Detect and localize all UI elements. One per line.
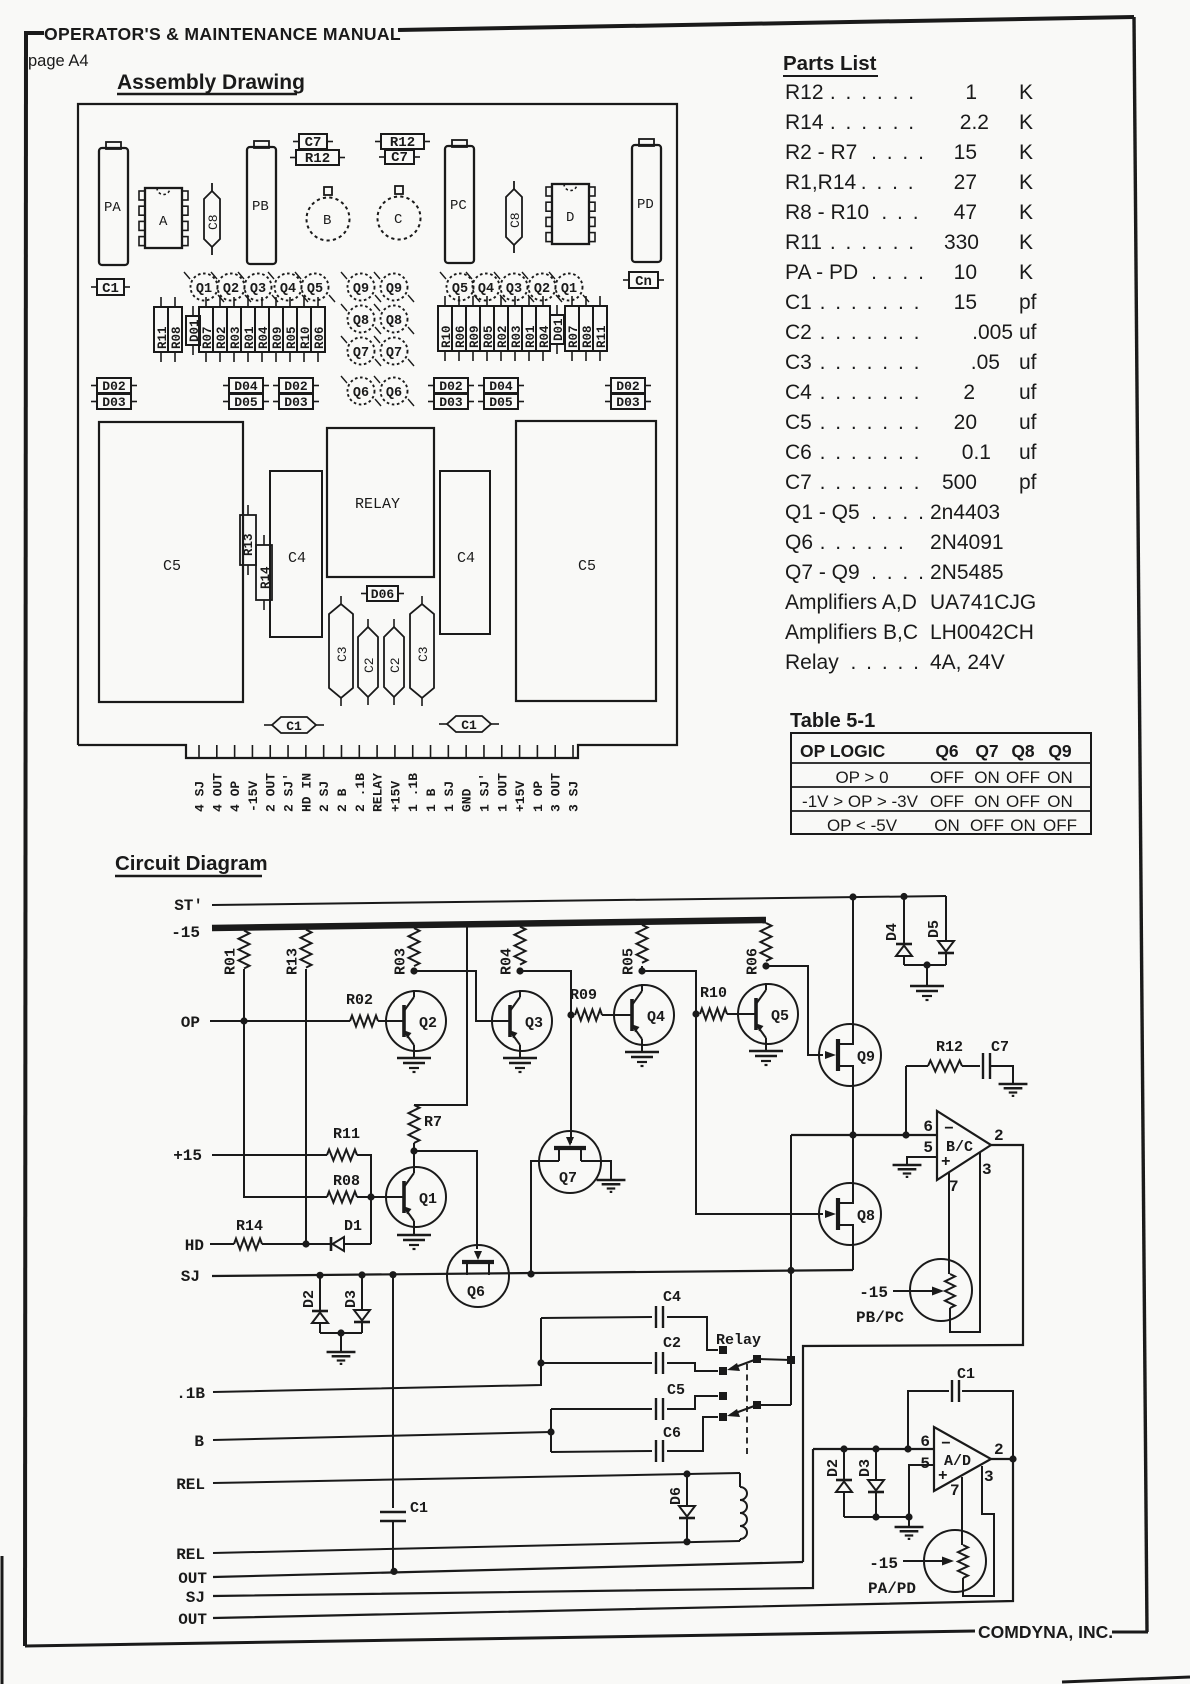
wire Q4 collector to R10 (elbow) bbox=[642, 971, 696, 1014]
svg-text:. . . .: . . . . bbox=[871, 261, 926, 284]
svg-text:uf: uf bbox=[1019, 411, 1037, 434]
svg-text:Q9: Q9 bbox=[1048, 741, 1072, 761]
diode D1 bbox=[330, 1237, 333, 1251]
transistor Q5 pad (left group) bbox=[302, 274, 329, 301]
resistor R06 (left group) bbox=[317, 297, 319, 307]
transistor Q7 pad (middle) bbox=[381, 338, 408, 365]
resistor R13 bbox=[301, 930, 312, 968]
wire summing line into A/D bbox=[813, 1448, 934, 1450]
resistor R04 (right group) bbox=[542, 296, 544, 306]
wire ST' corner to D5 bbox=[945, 896, 947, 941]
svg-text:Q1: Q1 bbox=[561, 282, 577, 297]
svg-text:HD: HD bbox=[185, 1237, 204, 1255]
svg-text:PA - PD: PA - PD bbox=[785, 261, 858, 284]
capacitor C5 (left) bbox=[99, 422, 243, 702]
svg-text:C2: C2 bbox=[663, 1335, 681, 1352]
svg-text:47: 47 bbox=[954, 201, 977, 224]
table box bbox=[791, 733, 1091, 834]
svg-text:C1: C1 bbox=[102, 281, 119, 297]
wire Q1 collector bbox=[413, 1151, 415, 1168]
svg-text:R2 - R7: R2 - R7 bbox=[785, 141, 857, 164]
svg-text:R02: R02 bbox=[346, 992, 373, 1009]
svg-text:REL: REL bbox=[176, 1476, 205, 1494]
junction pin5 ground node bbox=[905, 1513, 912, 1520]
junction Q1 base bbox=[367, 1193, 374, 1200]
svg-text:2 SJ': 2 SJ' bbox=[282, 773, 297, 812]
edge connector pin 1 OUT bbox=[501, 745, 503, 758]
svg-text:C5: C5 bbox=[667, 1382, 685, 1399]
svg-text:Q2: Q2 bbox=[223, 282, 239, 297]
svg-text:3 OUT: 3 OUT bbox=[549, 773, 564, 812]
wire PB/PC bottom to pin3 bbox=[950, 1152, 980, 1332]
wire R06 to Q5 collector node bbox=[765, 964, 767, 966]
ground after C7 bbox=[999, 1083, 1028, 1086]
resistor R01 (right group) bbox=[528, 296, 530, 306]
svg-text:pf: pf bbox=[1019, 291, 1037, 314]
svg-text:page A4: page A4 bbox=[28, 52, 89, 70]
svg-text:C8: C8 bbox=[508, 212, 523, 228]
wire SJ line (bottom) bbox=[213, 1449, 813, 1596]
svg-text:Q1 - Q5: Q1 - Q5 bbox=[785, 501, 860, 524]
svg-text:C2: C2 bbox=[362, 657, 377, 673]
svg-text:D3: D3 bbox=[857, 1459, 874, 1477]
svg-text:OFF: OFF bbox=[970, 816, 1004, 835]
svg-text:Amplifiers B,C: Amplifiers B,C bbox=[785, 621, 918, 644]
edge connector pin +15V bbox=[519, 745, 521, 758]
junction D2/D3 ground bbox=[337, 1329, 344, 1336]
svg-text:C1: C1 bbox=[461, 718, 477, 733]
resistor R05 (right group) bbox=[486, 296, 488, 306]
svg-text:C5: C5 bbox=[163, 558, 181, 575]
svg-text:B: B bbox=[194, 1433, 204, 1451]
edge connector pin 1 SJ' bbox=[483, 745, 485, 758]
edge connector pin +15V bbox=[394, 745, 396, 758]
svg-text:Q8: Q8 bbox=[353, 314, 369, 329]
resistor R09 (left group) bbox=[275, 297, 277, 307]
svg-text:2: 2 bbox=[994, 1441, 1004, 1459]
svg-text:C: C bbox=[394, 212, 402, 228]
svg-text:UA741CJG: UA741CJG bbox=[930, 591, 1036, 614]
svg-text:. . . . .: . . . . . bbox=[851, 651, 922, 674]
svg-text:A/D: A/D bbox=[944, 1453, 971, 1470]
capacitor C2 (right) bbox=[393, 619, 395, 627]
svg-text:Assembly Drawing: Assembly Drawing bbox=[117, 71, 305, 94]
resistor R10 bbox=[700, 1009, 727, 1020]
ground below Q5 bbox=[765, 1045, 767, 1050]
resistor R08 (left group) bbox=[174, 297, 176, 307]
wire B/C output pin2 bbox=[803, 1145, 1023, 1562]
capacitor C1 (A/D feedback) bbox=[908, 1391, 949, 1449]
junction D4/D5 ground node bbox=[923, 961, 930, 968]
svg-text:Q6: Q6 bbox=[935, 741, 959, 761]
svg-text:D05: D05 bbox=[489, 395, 513, 410]
svg-text:C6: C6 bbox=[785, 441, 812, 464]
transistor Q7 bbox=[539, 1131, 601, 1193]
svg-text:−: − bbox=[941, 1435, 951, 1453]
ground below Q3 bbox=[519, 1052, 521, 1057]
relay contact C4 bbox=[719, 1346, 727, 1354]
capacitor C5 (right) bbox=[516, 421, 656, 701]
diode D3 (SJ clamp) bbox=[361, 1275, 363, 1310]
svg-text:SJ: SJ bbox=[181, 1268, 200, 1286]
transistor Q9 pad (middle) bbox=[381, 274, 408, 301]
diodes D02/D03 boxes (mid-left) bbox=[273, 385, 279, 387]
svg-text:D03: D03 bbox=[616, 395, 640, 410]
svg-text:PA/PD: PA/PD bbox=[868, 1580, 916, 1598]
table rule 2 bbox=[791, 786, 1091, 788]
wiper arrow PB/PC bbox=[893, 1290, 934, 1292]
svg-text:2N5485: 2N5485 bbox=[930, 561, 1004, 584]
svg-text:Q8: Q8 bbox=[1011, 741, 1035, 761]
svg-text:COMDYNA, INC.: COMDYNA, INC. bbox=[978, 1622, 1113, 1642]
junction Q3 collector bbox=[516, 967, 523, 974]
svg-text:Q5: Q5 bbox=[771, 1008, 789, 1025]
svg-text:C1: C1 bbox=[410, 1500, 428, 1517]
capacitor C4 (left) bbox=[270, 471, 322, 637]
junction OP/R01 bbox=[240, 1017, 247, 1024]
resistor R01 (left group) bbox=[247, 297, 249, 307]
svg-text:OPERATOR'S & MAINTENANCE MA: OPERATOR'S & MAINTENANCE MANUAL bbox=[44, 24, 401, 44]
wire REL line (top) bbox=[213, 1473, 740, 1483]
svg-text:SJ: SJ bbox=[186, 1589, 205, 1607]
transistor Q5 pad (right group) bbox=[447, 274, 474, 301]
capacitor C2 (relay bank) bbox=[541, 1362, 652, 1364]
svg-text:R11: R11 bbox=[595, 325, 609, 348]
label box C7 (right pair) bbox=[379, 156, 385, 158]
svg-text:2 OUT: 2 OUT bbox=[264, 773, 279, 812]
svg-text:D4: D4 bbox=[884, 923, 901, 941]
svg-text:-15V: -15V bbox=[246, 781, 261, 812]
wire arm1 to riser bbox=[757, 1359, 791, 1360]
ground below D4/D5 bbox=[926, 965, 928, 985]
wire Q7 drain to ground bbox=[581, 1161, 611, 1179]
svg-text:RELAY: RELAY bbox=[355, 496, 400, 513]
svg-text:PA: PA bbox=[104, 200, 121, 216]
svg-text:Q9: Q9 bbox=[857, 1049, 875, 1066]
svg-text:C3: C3 bbox=[785, 351, 812, 374]
resistor R02 bbox=[350, 1016, 378, 1027]
junction ST'/D4 bbox=[900, 893, 907, 900]
svg-text:1 SJ': 1 SJ' bbox=[477, 773, 492, 812]
wire OUT line (1) bbox=[213, 1562, 803, 1577]
ground below Q2 bbox=[413, 1052, 415, 1057]
wire R05 to Q4 collector node bbox=[641, 966, 643, 971]
junction REL/D6 bbox=[683, 1470, 690, 1477]
svg-text:R7: R7 bbox=[424, 1114, 442, 1131]
svg-text:1: 1 bbox=[965, 81, 977, 104]
svg-text:-1V > OP > -3V: -1V > OP > -3V bbox=[802, 792, 919, 811]
wire -15 bus (thick) bbox=[212, 920, 766, 928]
svg-text:C1: C1 bbox=[286, 719, 302, 734]
svg-text:Q5: Q5 bbox=[452, 282, 468, 297]
capacitor C4 (relay bank) bbox=[541, 1317, 652, 1318]
edge connector pin 2 SJ bbox=[323, 745, 325, 758]
diodes D04/D05 boxes (left) bbox=[223, 385, 229, 387]
svg-text:-15: -15 bbox=[171, 924, 200, 942]
svg-text:R11: R11 bbox=[333, 1126, 360, 1143]
resistor R7 bbox=[409, 1105, 420, 1143]
wire relay common riser bbox=[790, 1270, 792, 1405]
relay contact C5 bbox=[719, 1392, 727, 1400]
svg-text:R12: R12 bbox=[305, 151, 330, 167]
relay arm 2 bbox=[753, 1401, 761, 1409]
resistor R13 (assembly) bbox=[247, 505, 249, 515]
svg-text:K: K bbox=[1019, 171, 1033, 194]
svg-text:1 SJ: 1 SJ bbox=[442, 781, 457, 812]
wire OP down to R08 row bbox=[244, 1021, 327, 1197]
svg-text:. . . .: . . . . bbox=[871, 501, 926, 524]
junction OUT/C1 bbox=[390, 1568, 397, 1575]
svg-text:20: 20 bbox=[954, 411, 977, 434]
svg-text:Q7: Q7 bbox=[353, 346, 369, 361]
svg-text:R04: R04 bbox=[499, 948, 516, 975]
resistor R11 (right group) bbox=[599, 296, 601, 306]
svg-text:ON: ON bbox=[1047, 792, 1073, 811]
capacitor C2 (left) bbox=[367, 619, 369, 627]
wire Q8 gate from R10 junction bbox=[696, 1014, 823, 1214]
svg-text:. . . .: . . . . bbox=[871, 141, 926, 164]
svg-text:C6: C6 bbox=[663, 1425, 681, 1442]
junction SJ/pin6 riser bbox=[787, 1267, 794, 1274]
svg-text:OP > 0: OP > 0 bbox=[835, 768, 888, 787]
resistor R05 bbox=[637, 925, 648, 963]
wire .1B line bbox=[213, 1318, 541, 1392]
transistor Q6 bbox=[447, 1245, 509, 1307]
svg-text:D02: D02 bbox=[439, 379, 463, 394]
svg-text:D1: D1 bbox=[344, 1218, 362, 1235]
wire D1 to base junction (elbow) bbox=[344, 1243, 371, 1245]
diodes D02/D03 boxes (far left) bbox=[91, 385, 97, 387]
resistor R11 (left group) bbox=[160, 297, 162, 307]
svg-text:Q6: Q6 bbox=[386, 386, 402, 401]
resistor R02 (left group) bbox=[219, 297, 221, 307]
svg-text:D03: D03 bbox=[284, 395, 308, 410]
edge connector pin RELAY bbox=[376, 745, 378, 758]
label box R12 (left pair) bbox=[290, 157, 296, 159]
edge connector pin 1 .1B bbox=[412, 745, 414, 758]
svg-text:3 SJ: 3 SJ bbox=[567, 781, 582, 812]
svg-text:2 B: 2 B bbox=[335, 788, 350, 812]
svg-text:D04: D04 bbox=[234, 379, 258, 394]
svg-text:ON: ON bbox=[974, 792, 1000, 811]
svg-text:C7: C7 bbox=[391, 150, 408, 166]
wiper arrow PA/PD bbox=[903, 1560, 944, 1562]
svg-text:R03: R03 bbox=[393, 948, 410, 975]
svg-text:uf: uf bbox=[1019, 351, 1037, 374]
capacitor C6 (relay bank) bbox=[551, 1451, 652, 1452]
svg-text:Q3: Q3 bbox=[525, 1015, 543, 1032]
resistor R04 (left group) bbox=[261, 297, 263, 307]
svg-text:Q7 - Q9: Q7 - Q9 bbox=[785, 561, 860, 584]
wire Q7 source to SJ bbox=[531, 1161, 559, 1274]
wire Q8 source down to SJ line bbox=[852, 1245, 854, 1270]
edge connector pin 1 OP bbox=[536, 745, 538, 758]
svg-text:-15: -15 bbox=[859, 1284, 888, 1302]
svg-text:2 SJ: 2 SJ bbox=[317, 781, 332, 812]
wire D2/D3 bottom bbox=[844, 1516, 909, 1518]
wire pin7 down to PA/PD pot bbox=[961, 1477, 963, 1545]
svg-text:D01: D01 bbox=[552, 318, 566, 341]
transistor Q6 pad (middle) bbox=[348, 378, 375, 405]
svg-text:4 OP: 4 OP bbox=[228, 781, 243, 812]
edge connector pin 2 B bbox=[340, 745, 342, 758]
svg-text:R12: R12 bbox=[936, 1039, 963, 1056]
svg-text:C2: C2 bbox=[388, 657, 403, 673]
svg-text:+15V: +15V bbox=[513, 781, 528, 812]
junction ST'/Q9 drain bbox=[849, 893, 856, 900]
junction C1 feedback tap bbox=[904, 1445, 911, 1452]
svg-text:Q8: Q8 bbox=[386, 314, 402, 329]
wire B line bbox=[213, 1432, 551, 1440]
wire Q9 drain up to ST rail bbox=[852, 897, 854, 1024]
assembly board outline bbox=[78, 104, 677, 758]
svg-text:ON: ON bbox=[1010, 816, 1036, 835]
svg-text:ST': ST' bbox=[174, 897, 203, 915]
wire R11 elbow down bbox=[357, 1155, 371, 1244]
transistor Q3 pad (right group) bbox=[501, 274, 528, 301]
svg-text:K: K bbox=[1019, 141, 1033, 164]
svg-text:R12: R12 bbox=[785, 81, 824, 104]
transistor Q6 pad (middle) bbox=[381, 378, 408, 405]
wire R7 to Q1 collector junction bbox=[413, 1143, 415, 1151]
resistor R08 (right group) bbox=[585, 296, 587, 306]
svg-text:RELAY: RELAY bbox=[371, 773, 386, 812]
svg-text:HD IN: HD IN bbox=[299, 773, 314, 812]
svg-text:R01: R01 bbox=[223, 948, 240, 975]
wire ST' rail bbox=[212, 896, 946, 905]
svg-text:R1,R14: R1,R14 bbox=[785, 171, 857, 194]
svg-text:Q6: Q6 bbox=[785, 531, 813, 554]
svg-text:. . . . . .: . . . . . . bbox=[830, 81, 916, 104]
ground below A/D pin5 bbox=[908, 1517, 910, 1526]
svg-text:4 OUT: 4 OUT bbox=[210, 773, 225, 812]
svg-text:ON: ON bbox=[974, 768, 1000, 787]
wire R04 to Q3 collector node bbox=[519, 968, 521, 971]
svg-text:Relay: Relay bbox=[716, 1332, 761, 1349]
edge connector pin 4 SJ bbox=[198, 745, 200, 758]
svg-text:C4: C4 bbox=[663, 1289, 681, 1306]
wire R14 to junction bbox=[262, 1243, 331, 1245]
wire REL line (bottom) bbox=[213, 1541, 740, 1553]
svg-text:. . . . . . .: . . . . . . . bbox=[820, 411, 922, 434]
resistor R10 (right group) bbox=[444, 296, 446, 306]
svg-text:K: K bbox=[1019, 201, 1033, 224]
junction D2 (A/D) bbox=[840, 1445, 847, 1452]
transistor Q5 bbox=[738, 984, 798, 1044]
transistor Q8 pad (middle) bbox=[381, 306, 408, 333]
svg-text:R13: R13 bbox=[242, 533, 256, 556]
junction Q2 collector bbox=[410, 967, 417, 974]
wire Q1 collector node to Q6 gate bbox=[414, 1151, 477, 1249]
wire R08 to base junction bbox=[357, 1196, 371, 1198]
svg-text:Q2: Q2 bbox=[534, 282, 550, 297]
resistor R11 bbox=[327, 1150, 357, 1161]
ground below Q4 bbox=[641, 1046, 643, 1051]
label box D06 bbox=[361, 593, 367, 595]
wire R02 to Q2 base bbox=[378, 1020, 404, 1022]
svg-text:OFF: OFF bbox=[930, 768, 964, 787]
svg-text:Q8: Q8 bbox=[857, 1208, 875, 1225]
label box R12 (right pair) bbox=[375, 141, 381, 143]
wire Q5 collector to Q9 gate (elbow) bbox=[766, 966, 823, 1055]
svg-text:330: 330 bbox=[944, 231, 979, 254]
junction SJ/D3 bbox=[358, 1271, 365, 1278]
svg-text:OUT: OUT bbox=[178, 1570, 207, 1588]
transistor Q1 pad (left group) bbox=[191, 274, 218, 301]
svg-text:uf: uf bbox=[1019, 321, 1037, 344]
table rule 3 bbox=[791, 810, 1091, 812]
svg-text:OFF: OFF bbox=[930, 792, 964, 811]
transistor Q3 pad (left group) bbox=[245, 274, 272, 301]
svg-text:D02: D02 bbox=[102, 379, 126, 394]
junction D3 bottom bbox=[872, 1513, 879, 1520]
potentiometer PA/PD bbox=[924, 1530, 986, 1592]
op-amp B/C bbox=[937, 1111, 991, 1180]
resistor R07 (right group) bbox=[571, 296, 573, 306]
resistor R03 bbox=[409, 928, 420, 966]
svg-text:uf: uf bbox=[1019, 381, 1037, 404]
svg-text:Q1: Q1 bbox=[419, 1191, 437, 1208]
svg-text:Q3: Q3 bbox=[250, 282, 266, 297]
svg-text:R06: R06 bbox=[745, 948, 762, 975]
svg-text:C1: C1 bbox=[957, 1366, 975, 1383]
potentiometer PB/PC bbox=[910, 1259, 972, 1321]
svg-text:R13: R13 bbox=[285, 948, 302, 975]
diode D6 bbox=[686, 1474, 688, 1506]
svg-text:+15V: +15V bbox=[388, 781, 403, 812]
svg-text:6: 6 bbox=[923, 1118, 933, 1136]
junction R7/Q1 collector bbox=[410, 1147, 417, 1154]
edge connector pin HD IN bbox=[305, 745, 307, 758]
transistor Q9 pad (middle) bbox=[348, 274, 375, 301]
potentiometer PD bbox=[632, 145, 661, 262]
svg-text:R14: R14 bbox=[236, 1218, 263, 1235]
svg-text:. . . . . . .: . . . . . . . bbox=[820, 321, 922, 344]
svg-text:-15: -15 bbox=[869, 1555, 898, 1573]
svg-text:7: 7 bbox=[949, 1178, 959, 1196]
edge connector pin 3 OUT bbox=[554, 745, 556, 758]
transistor C (can) bbox=[378, 197, 421, 240]
svg-text:C5: C5 bbox=[578, 558, 596, 575]
svg-text:C4: C4 bbox=[457, 550, 475, 567]
svg-text:1 OUT: 1 OUT bbox=[495, 773, 510, 812]
svg-text:C1: C1 bbox=[785, 291, 812, 314]
svg-text:B/C: B/C bbox=[946, 1139, 973, 1156]
capacitor C1 (SJ to OUT) bbox=[380, 1511, 406, 1513]
relay actuator dashed link bbox=[746, 1364, 748, 1458]
svg-text:C5: C5 bbox=[785, 411, 812, 434]
svg-text:27: 27 bbox=[954, 171, 977, 194]
diode D2 (A/D clamp) bbox=[843, 1449, 845, 1480]
svg-text:A: A bbox=[159, 214, 168, 230]
diodes D04/D05 boxes (right) bbox=[478, 385, 484, 387]
junction SJ/C1 bbox=[389, 1271, 396, 1278]
svg-text:C4: C4 bbox=[288, 550, 306, 567]
svg-text:C7: C7 bbox=[305, 135, 322, 151]
wire Q3 collector to R09 (elbow) bbox=[520, 971, 571, 1015]
wire Q9 source down to summing line bbox=[852, 1086, 854, 1135]
wire HD line bbox=[210, 1243, 234, 1245]
svg-text:2.2: 2.2 bbox=[960, 111, 989, 134]
svg-text:3: 3 bbox=[982, 1161, 992, 1179]
ground below Q1 bbox=[413, 1228, 415, 1234]
svg-text:GND: GND bbox=[460, 788, 475, 812]
transistor Q4 pad (left group) bbox=[275, 274, 302, 301]
svg-text:4A, 24V: 4A, 24V bbox=[930, 651, 1005, 674]
resistor R05 (left group) bbox=[289, 297, 291, 307]
svg-text:C3: C3 bbox=[416, 646, 431, 662]
junction Q9/Q8 bbox=[849, 1131, 856, 1138]
